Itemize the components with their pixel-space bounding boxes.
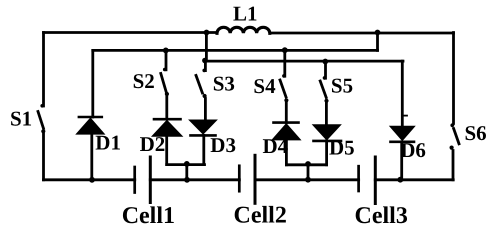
node D6 / bus — [397, 177, 403, 183]
bus segment right — [375, 178, 453, 181]
bus segment 2 — [150, 178, 239, 181]
wire drop to bus — [185, 165, 188, 180]
svg-text:D3: D3 — [210, 133, 236, 157]
diode D3 — [190, 120, 216, 164]
wire drop to bus — [307, 165, 310, 180]
node S5 / third wire — [322, 59, 328, 65]
switch S2 — [161, 50, 169, 119]
node S3 / third wire — [202, 58, 208, 64]
svg-text:D6: D6 — [400, 138, 426, 162]
svg-text:D1: D1 — [95, 131, 121, 155]
node S4 / second wire — [282, 47, 288, 53]
svg-text:Cell1: Cell1 — [122, 203, 175, 229]
node junction top wire / second wire — [375, 30, 381, 36]
node S2 / second wire — [163, 48, 169, 54]
svg-text:Cell3: Cell3 — [355, 203, 408, 229]
switch S6 — [450, 33, 460, 180]
diode D4 — [273, 123, 300, 165]
wire second horizontal (inductor right node) — [93, 49, 378, 52]
svg-text:D2: D2 — [140, 132, 166, 156]
svg-text:S4: S4 — [253, 74, 276, 98]
bus segment left — [44, 178, 135, 181]
svg-text:S5: S5 — [331, 74, 353, 98]
switch S5 — [320, 62, 328, 126]
wire D6 column — [401, 61, 404, 127]
svg-text:L1: L1 — [233, 2, 258, 26]
wire riser to top wire — [376, 33, 379, 51]
node join / bus — [184, 177, 190, 183]
bus segment 3 — [255, 178, 359, 181]
switch S4 — [280, 50, 289, 122]
node join / bus — [305, 177, 311, 183]
cell Cell3 — [359, 157, 376, 204]
wire top-right horizontal — [270, 32, 454, 35]
wire D2-D3 join — [167, 163, 205, 166]
svg-text:S6: S6 — [465, 121, 487, 145]
node D4-D5 midpoint — [305, 161, 311, 167]
switch S3 — [196, 60, 207, 120]
wire D4-D5 join — [286, 163, 326, 166]
node inductor left / S3 column — [204, 30, 210, 36]
wire S3 column from top node — [205, 33, 208, 60]
wire third horizontal (inductor left node) — [206, 60, 404, 63]
node D1 / bus — [89, 177, 95, 183]
svg-text:Cell2: Cell2 — [234, 203, 287, 229]
svg-text:S1: S1 — [10, 106, 32, 130]
svg-text:S2: S2 — [133, 69, 155, 93]
svg-text:S3: S3 — [213, 71, 235, 95]
node D2-D3 midpoint — [184, 161, 190, 167]
diode D5 — [314, 125, 342, 165]
wire top-left horizontal — [44, 31, 218, 34]
diode D6 — [391, 127, 415, 180]
diode D2 — [153, 119, 182, 164]
tick on D6 column — [403, 115, 408, 117]
svg-text:D4: D4 — [263, 134, 289, 158]
inductor L1 — [217, 27, 270, 33]
diode D1 — [77, 50, 104, 179]
cell Cell1 — [135, 157, 151, 203]
svg-text:D5: D5 — [329, 135, 355, 159]
cell Cell2 — [239, 155, 255, 203]
switch S1 — [38, 33, 45, 180]
